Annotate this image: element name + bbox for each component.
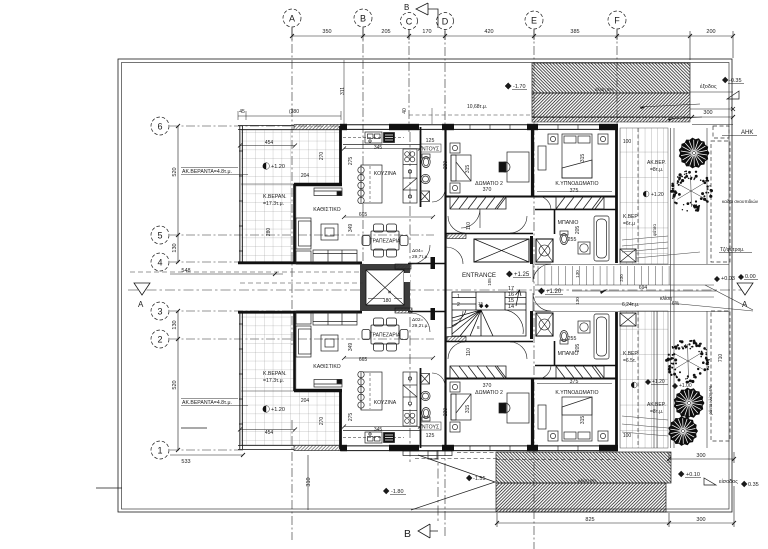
area label top unit: [412, 248, 429, 260]
svg-text:-1.55: -1.55: [473, 476, 486, 482]
svg-text:ΑΚ.ΒΕΡΑΝΤΑ=4.8τ.μ.: ΑΚ.ΒΕΡΑΝΤΑ=4.8τ.μ.: [182, 169, 232, 175]
dashed apron left of bottom ramp: [415, 453, 496, 459]
kitchen bottom unit: [343, 371, 420, 443]
exit label top right: [690, 77, 744, 125]
planter label: [719, 246, 752, 253]
bath top fixtures: [537, 146, 612, 261]
svg-text:1: 1: [157, 446, 162, 456]
wall ntous west: [420, 127, 422, 207]
svg-text:Κ.ΥΠΝΟΔΩΜΑΤΙΟ: Κ.ΥΠΝΟΔΩΜΑΤΙΟ: [555, 390, 598, 396]
svg-text:170: 170: [422, 29, 431, 35]
level +1.25: [506, 271, 531, 278]
grid line 5: [170, 234, 434, 236]
svg-text:270: 270: [319, 152, 325, 161]
svg-text:ΑΚ.ΒΕΡ.: ΑΚ.ΒΕΡ.: [647, 160, 666, 166]
svg-text:125: 125: [426, 138, 435, 144]
svg-text:ΝΤΟΥΣ: ΝΤΟΥΣ: [422, 147, 439, 153]
bubble 1: [151, 441, 169, 459]
door arcs bedrooms top: [448, 216, 527, 233]
living room bottom: [296, 311, 357, 387]
svg-text:+1.20: +1.20: [271, 164, 285, 170]
level +1.20 veranda bottom: [263, 406, 285, 413]
svg-text:255: 255: [568, 336, 577, 342]
veranda labels right top: [623, 160, 666, 227]
wall D bottom unit: [444, 339, 446, 449]
svg-text:300: 300: [696, 453, 705, 459]
svg-text:ράντα κλίση 6%: ράντα κλίση 6%: [708, 385, 713, 415]
wardrobe bedroom2 bottom: [450, 366, 506, 378]
kitchen top unit: [343, 132, 420, 204]
level -1.70: [505, 83, 527, 90]
level marks right bottom: [645, 379, 692, 389]
svg-text:315: 315: [580, 416, 586, 425]
dining bottom: [362, 318, 408, 351]
tree leafy bottom: [665, 340, 710, 384]
dashed helper line top: [409, 114, 531, 116]
svg-text:=17.3τ.μ.: =17.3τ.μ.: [263, 201, 284, 207]
svg-text:125: 125: [426, 433, 435, 439]
svg-text:ΝΤΟΥΣ: ΝΤΟΥΣ: [422, 425, 439, 431]
top unit south wall living: [296, 262, 362, 265]
grid line 4: [170, 261, 296, 263]
svg-text:0.35: 0.35: [748, 482, 759, 488]
exterior stair lines bottom veranda: [622, 416, 668, 436]
veranda tiles bottom unit: [241, 313, 340, 445]
svg-text:350: 350: [322, 29, 331, 35]
wardrobe master top: [556, 197, 604, 209]
grid line E: [533, 30, 535, 549]
bubble 2: [151, 330, 169, 348]
svg-text:=8τ.μ.: =8τ.μ.: [650, 409, 663, 415]
level -1.80: [383, 488, 406, 495]
GRIDS_DIMS: [128, 28, 745, 549]
svg-text:40: 40: [402, 108, 408, 114]
svg-text:275: 275: [348, 413, 354, 422]
stair up arrow: [516, 290, 522, 306]
svg-text:204: 204: [301, 398, 310, 404]
bubble 6: [151, 117, 169, 135]
levels at ramp right: [714, 274, 758, 282]
svg-text:ΚΟΥΖΙΝΑ: ΚΟΥΖΙΝΑ: [374, 171, 397, 177]
svg-text:Β: Β: [387, 290, 392, 293]
svg-text:D: D: [442, 17, 449, 27]
small dims around building bottom: [265, 343, 586, 436]
shaft boxes right of corridor bottom: [536, 313, 553, 336]
veranda labels right bottom: [623, 351, 666, 415]
svg-text:φάτσα: φάτσα: [652, 224, 657, 236]
svg-text:+0.03: +0.03: [721, 276, 735, 282]
svg-text:F: F: [614, 16, 620, 26]
grid line 3: [170, 310, 296, 312]
svg-text:κλίση: κλίση: [660, 296, 672, 302]
svg-text:130: 130: [575, 270, 580, 278]
svg-text:=6τ.μ: =6τ.μ: [623, 221, 635, 227]
svg-text:2: 2: [457, 302, 460, 308]
svg-text:825: 825: [585, 517, 594, 523]
svg-text:300: 300: [703, 110, 712, 116]
svg-text:105: 105: [487, 278, 492, 286]
exterior stair lines top veranda: [622, 236, 700, 258]
dashed lines between units: [130, 272, 363, 283]
svg-text:204: 204: [301, 173, 310, 179]
stair numbers: [457, 286, 514, 330]
grid line 2: [170, 338, 434, 340]
corridor south wall top unit: [446, 233, 533, 235]
svg-text:420: 420: [484, 29, 493, 35]
section line B-B vertical: [409, 132, 411, 462]
svg-text:ENTRANCE: ENTRANCE: [462, 272, 496, 279]
svg-text:6%: 6%: [672, 301, 680, 307]
bath west wall top unit: [554, 210, 556, 234]
east fence lines: [654, 128, 707, 448]
bottom unit veranda north edge: [238, 311, 296, 314]
svg-text:29,7τ.μ.: 29,7τ.μ.: [412, 254, 429, 260]
bedroom2 bottom furniture: [450, 382, 529, 432]
grid line A: [291, 28, 293, 345]
tree leafy top: [670, 170, 713, 211]
bedroom2 top furniture: [450, 143, 529, 193]
svg-text:349: 349: [348, 343, 354, 352]
svg-text:ΑΚ.ΒΕΡ.: ΑΚ.ΒΕΡ.: [647, 402, 666, 408]
bath south wall bottom unit: [535, 365, 616, 367]
svg-text:είσοδος: είσοδος: [719, 479, 738, 485]
svg-text:ΑΚ.ΒΕΡΑΝΤΑ=4.8τ.μ.: ΑΚ.ΒΕΡΑΝΤΑ=4.8τ.μ.: [182, 400, 232, 406]
svg-text:κλίση 6%: κλίση 6%: [595, 87, 614, 92]
svg-text:A: A: [289, 14, 295, 24]
tree pine top: [679, 138, 710, 169]
grid line D: [444, 31, 446, 536]
interior door arcs top unit: [446, 209, 480, 264]
section line A-A horizontal: [128, 289, 745, 291]
svg-text:ΔΩΜΑΤΙΟ 2: ΔΩΜΑΤΙΟ 2: [475, 390, 503, 396]
svg-text:4: 4: [157, 258, 162, 268]
hatched ramp bottom: [496, 452, 671, 512]
level -1.55: [466, 475, 486, 482]
bins dashed enclosure: [711, 126, 730, 441]
svg-text:200: 200: [706, 29, 715, 35]
section marker B bottom: [418, 524, 438, 538]
svg-text:+1.20: +1.20: [546, 289, 562, 295]
svg-text:345: 345: [374, 145, 383, 151]
svg-text:110: 110: [466, 348, 472, 356]
svg-text:710: 710: [718, 354, 724, 363]
svg-text:100: 100: [623, 433, 632, 439]
elevator shaft: [360, 264, 410, 311]
master bed top: [548, 134, 608, 178]
wall D top unit: [444, 126, 446, 236]
svg-text:=17.3τ.μ.: =17.3τ.μ.: [263, 378, 284, 384]
left dims: [170, 126, 308, 510]
dim lines above building: [238, 60, 344, 432]
svg-text:B: B: [404, 528, 411, 540]
level +0.10 entrance walk: [678, 471, 701, 478]
svg-text:230: 230: [443, 408, 449, 417]
top unit living north wall (veranda separation): [294, 183, 342, 187]
entrance hall walls: [446, 234, 532, 342]
master bed bottom: [548, 397, 608, 441]
grid line 1: [170, 449, 243, 451]
bubble E: [525, 11, 543, 29]
svg-text:533: 533: [181, 459, 190, 465]
svg-text:-1.70: -1.70: [513, 84, 526, 90]
bubble D: [437, 13, 454, 30]
svg-text:+1.00: +1.00: [679, 383, 692, 389]
bath west wall bottom unit: [554, 341, 556, 365]
svg-text:5: 5: [157, 231, 162, 241]
svg-text:694: 694: [639, 285, 648, 291]
veranda tiles top unit: [241, 130, 340, 262]
svg-text:230: 230: [443, 161, 449, 170]
svg-text:255: 255: [568, 237, 577, 243]
svg-text:καδοι σκουπιδιών: καδοι σκουπιδιών: [722, 198, 759, 204]
svg-text:230: 230: [619, 274, 624, 282]
svg-text:275: 275: [348, 157, 354, 166]
door arcs bedrooms bottom: [446, 311, 527, 359]
bubble 3: [151, 302, 169, 320]
svg-text:385: 385: [570, 29, 579, 35]
svg-text:315: 315: [465, 165, 471, 174]
svg-text:14: 14: [508, 304, 514, 310]
bottom unit kitchen west wall: [339, 390, 342, 449]
bottom unit veranda west edge: [239, 311, 241, 449]
svg-text:A: A: [138, 300, 144, 309]
bottom unit living west wall: [293, 311, 296, 391]
svg-text:310: 310: [306, 477, 312, 486]
svg-text:Κ.ΥΠΝΟΔΩΜΑΤΙΟ: Κ.ΥΠΝΟΔΩΜΑΤΙΟ: [555, 181, 598, 187]
right veranda top unit: [620, 128, 668, 264]
svg-text:κλίση 6%: κλίση 6%: [578, 478, 597, 483]
ramp dim 694: [572, 285, 716, 308]
level +1.20: [538, 288, 563, 295]
top unit north wall: [238, 124, 618, 130]
AHK label: [722, 130, 757, 136]
svg-text:370: 370: [483, 187, 492, 193]
ramp direction arrow bottom: [411, 455, 495, 510]
bedrooms south wall top unit: [446, 196, 616, 198]
driveway ramp lines: [535, 265, 753, 312]
entrance label bottom right: [704, 478, 759, 488]
veranda labels top: [181, 168, 287, 208]
svg-text:=8τ.μ.: =8τ.μ.: [650, 167, 663, 173]
section marker B top: [416, 3, 438, 28]
svg-text:E: E: [531, 16, 537, 26]
svg-text:6,24τ.μ.: 6,24τ.μ.: [622, 302, 639, 308]
svg-text:1: 1: [457, 294, 460, 300]
area label bottom unit: [412, 317, 429, 329]
svg-text:10,68τ.μ.: 10,68τ.μ.: [467, 104, 487, 110]
door arc entrance top: [533, 264, 551, 282]
svg-text:έξοδος: έξοδος: [700, 83, 717, 90]
bottom unit south wall: [238, 445, 618, 451]
svg-text:300: 300: [696, 517, 705, 523]
svg-text:Κ.ΒΕΡΑΝ.: Κ.ΒΕΡΑΝ.: [263, 194, 287, 200]
svg-text:Δ02=: Δ02=: [412, 317, 424, 323]
dining top: [362, 224, 408, 257]
top unit kitchen west wall: [339, 126, 342, 185]
room labels bottom unit: [313, 336, 598, 439]
bottom unit north wall living: [296, 311, 362, 314]
tree pine bottom 2: [668, 416, 698, 446]
level +1.20 veranda top: [263, 163, 285, 170]
small mark left: [181, 427, 207, 429]
svg-text:ΚΑΘΙΣΤΙΚΟ: ΚΑΘΙΣΤΙΚΟ: [313, 364, 340, 370]
svg-text:+0.10: +0.10: [686, 472, 700, 478]
svg-text:6: 6: [157, 122, 162, 132]
svg-text:454: 454: [265, 140, 274, 146]
svg-text:345: 345: [374, 427, 383, 433]
section marker A right: [737, 283, 753, 295]
room labels top unit: [313, 138, 598, 243]
svg-text:B: B: [360, 14, 366, 24]
svg-text:548: 548: [181, 268, 190, 274]
svg-text:349: 349: [348, 224, 354, 233]
site left stub line: [96, 487, 122, 489]
small dims around building top: [239, 87, 586, 286]
grid line C: [408, 30, 410, 132]
bubble A: [283, 9, 301, 27]
svg-text:Κ.ΒΕΡ.: Κ.ΒΕΡ.: [623, 351, 638, 357]
svg-text:Κ.ΒΕΡ: Κ.ΒΕΡ: [623, 214, 638, 220]
svg-text:100: 100: [623, 139, 632, 145]
bubble C: [401, 13, 418, 30]
grid line 6: [170, 125, 345, 127]
top unit east wall: [615, 125, 618, 263]
dim 300 top right: [690, 110, 735, 119]
hatched ramp top right: [532, 63, 702, 122]
svg-text:ΤΡΑΠΕΖΑΡΙΑ: ΤΡΑΠΕΖΑΡΙΑ: [370, 239, 401, 245]
section marker A left: [134, 283, 150, 295]
bottom unit east wall: [615, 312, 618, 450]
wardrobe bedroom2 top: [450, 197, 506, 209]
ntous wc top: [420, 154, 445, 202]
ntous wc bottom: [420, 373, 445, 421]
tree pine bottom 1: [674, 388, 705, 419]
svg-text:311: 311: [340, 87, 346, 95]
svg-text:2: 2: [157, 335, 162, 345]
door arc entrance bottom: [533, 293, 551, 311]
svg-text:205: 205: [575, 226, 581, 235]
west hall wall stubs: [395, 245, 435, 332]
svg-text:+1.20: +1.20: [652, 379, 665, 385]
svg-text:+1.20: +1.20: [271, 407, 285, 413]
grid line B: [362, 28, 364, 270]
bath north wall top unit: [535, 209, 616, 211]
svg-text:ΜΠΑΝΙΟ: ΜΠΑΝΙΟ: [558, 220, 579, 226]
svg-text:+1.25: +1.25: [514, 272, 530, 278]
svg-text:C: C: [406, 17, 413, 27]
grid line F: [616, 30, 618, 125]
top dimension chain: [292, 27, 733, 60]
wall bedroom2/master top: [531, 126, 534, 196]
svg-text:(380: (380: [289, 109, 299, 115]
top unit veranda south edge: [238, 261, 296, 264]
svg-text:315: 315: [580, 154, 586, 163]
site boundary double line: [118, 59, 732, 512]
bottom unit living south wall (veranda separation): [294, 389, 342, 393]
bubble B: [354, 9, 372, 27]
svg-text:ΚΟΥΖΙΝΑ: ΚΟΥΖΙΝΑ: [374, 400, 397, 406]
corridor north wall bottom unit: [446, 341, 533, 343]
stairs: [452, 292, 526, 336]
svg-text:520: 520: [172, 167, 178, 176]
svg-text:-1.80: -1.80: [391, 489, 404, 495]
shaft boxes right of corridor top: [536, 239, 553, 262]
svg-text:205: 205: [575, 344, 581, 353]
top unit veranda west edge: [239, 126, 241, 264]
svg-text:Τζ/φύτρομ.: Τζ/φύτρομ.: [720, 246, 745, 253]
entrance steps below south wall: [403, 451, 452, 459]
top unit living west wall: [293, 184, 296, 264]
svg-text:0.00: 0.00: [745, 274, 756, 280]
svg-text:=6.5τ.: =6.5τ.: [623, 358, 636, 364]
svg-text:130: 130: [575, 297, 580, 305]
svg-text:130: 130: [172, 243, 178, 252]
svg-text:205: 205: [381, 29, 390, 35]
svg-text:ΑΗΚ: ΑΗΚ: [741, 130, 753, 136]
svg-text:ΤΡΑΠΕΖΑΡΙΑ: ΤΡΑΠΕΖΑΡΙΑ: [370, 333, 401, 339]
bottom dimension chain: [497, 452, 734, 527]
svg-text:-0.35: -0.35: [729, 78, 742, 84]
wall bedroom2/master bottom: [531, 379, 534, 449]
svg-text:315: 315: [465, 405, 471, 414]
bath bottom fixtures: [537, 314, 612, 429]
svg-text:Δ04=: Δ04=: [412, 248, 424, 254]
svg-text:B: B: [404, 3, 409, 12]
bubble 5: [151, 226, 169, 244]
svg-text:375: 375: [570, 379, 579, 385]
bedrooms north wall bottom unit: [446, 378, 616, 380]
svg-text:454: 454: [265, 430, 274, 436]
right veranda bottom unit: [620, 311, 668, 448]
svg-text:375: 375: [570, 188, 579, 194]
wardrobe master bottom: [556, 366, 604, 378]
svg-text:270: 270: [319, 417, 325, 426]
svg-text:+1.20: +1.20: [651, 192, 664, 198]
wall ntous west bottom: [420, 368, 422, 448]
svg-text:45: 45: [239, 109, 245, 115]
svg-text:29,2τ.μ.: 29,2τ.μ.: [412, 323, 429, 329]
svg-text:3: 3: [157, 307, 162, 317]
svg-text:520: 520: [172, 380, 178, 389]
dim line 345 top: [342, 147, 435, 429]
svg-text:180: 180: [383, 298, 392, 304]
svg-text:280: 280: [266, 228, 272, 237]
bubble 4: [151, 253, 169, 271]
svg-text:ΚΑΘΙΣΤΙΚΟ: ΚΑΘΙΣΤΙΚΟ: [313, 207, 340, 213]
living room top: [296, 188, 357, 264]
corridor cross box top: [474, 239, 529, 262]
svg-text:370: 370: [483, 383, 492, 389]
veranda labels bottom: [181, 371, 287, 406]
svg-text:110: 110: [466, 222, 472, 230]
bubble F: [608, 11, 626, 29]
svg-text:130: 130: [172, 320, 178, 329]
svg-text:Κ.ΒΕΡΑΝ.: Κ.ΒΕΡΑΝ.: [263, 371, 287, 377]
